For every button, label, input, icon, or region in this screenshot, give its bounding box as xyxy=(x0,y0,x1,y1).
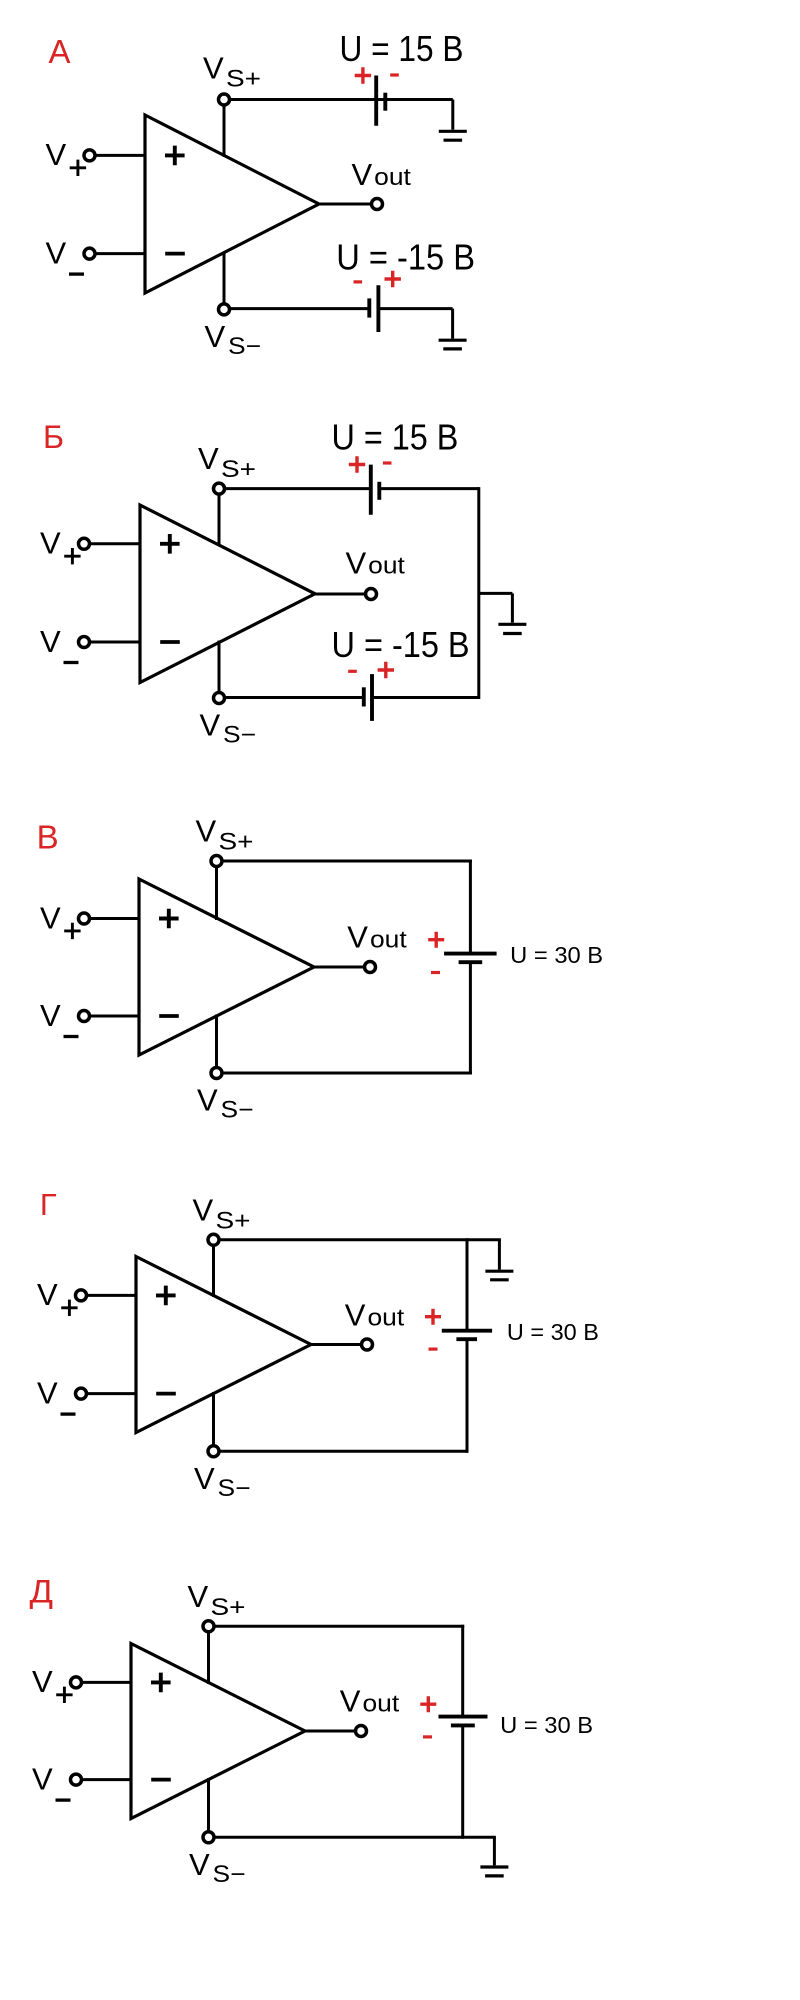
node Г: Vout terminal xyxy=(362,1339,373,1350)
svg-text:Д: Д xyxy=(30,1573,54,1609)
battery А bottom (−15 V) long plate xyxy=(376,285,380,332)
ground Б xyxy=(498,624,526,633)
label Б: battery top + polarity xyxy=(349,456,365,472)
label Г: VS− xyxy=(194,1461,251,1502)
op-amp В non-inverting input + mark xyxy=(159,909,179,929)
section В label xyxy=(37,819,59,856)
label Б: battery bottom + polarity xyxy=(378,662,394,678)
label В: battery value xyxy=(510,942,603,968)
node В: VS− terminal xyxy=(211,1068,222,1079)
svg-text:S+: S+ xyxy=(216,1207,251,1234)
battery Б bottom (−15 V) long plate xyxy=(370,674,374,721)
wire А: VS+ to battery + plate xyxy=(230,98,377,101)
node А: V+ input terminal xyxy=(84,150,95,161)
battery Б bottom (−15 V) short plate xyxy=(362,687,366,706)
node А: VS− terminal xyxy=(219,304,230,315)
label А: battery top value xyxy=(340,28,464,69)
op-amp А triangle xyxy=(145,115,319,293)
battery В (30 V) long plate xyxy=(444,952,497,956)
label Г: battery + polarity xyxy=(425,1309,441,1325)
op-amp А inverting input − mark xyxy=(165,252,185,256)
label В: V− xyxy=(40,998,79,1037)
node Г: V+ input terminal xyxy=(76,1290,87,1301)
battery Б top (+15 V) long plate xyxy=(369,465,373,515)
wire Г: VS+ pin stub xyxy=(212,1245,215,1297)
wire Д: VS− bottom rail xyxy=(214,1836,496,1839)
svg-text:S−: S− xyxy=(218,1475,251,1502)
label В: VS− xyxy=(197,1083,254,1124)
label А: V− xyxy=(46,236,85,275)
battery А top (+15 V) short plate xyxy=(383,93,387,111)
svg-text:V: V xyxy=(200,708,221,743)
wire Б: bus to ground xyxy=(479,593,513,622)
label А: battery bottom − polarity xyxy=(354,280,363,283)
svg-text:V: V xyxy=(189,1847,210,1882)
node Г: VS+ terminal xyxy=(208,1234,219,1245)
op-amp Б non-inverting input + mark xyxy=(160,534,180,554)
wire А: output xyxy=(319,203,372,206)
op-amp Г non-inverting input + mark xyxy=(156,1286,176,1306)
wire Д: VS+ top rail xyxy=(214,1625,464,1628)
wire Д: bottom rail to ground xyxy=(493,1837,496,1865)
wire В: right bus lower (battery − plate to VS−) xyxy=(469,962,472,1074)
wire В: output xyxy=(314,966,365,969)
node В: V− input terminal xyxy=(79,1011,90,1022)
svg-text:V: V xyxy=(193,1192,214,1227)
label Д: battery value xyxy=(500,1712,593,1738)
ground А top xyxy=(439,131,467,140)
label А: battery top − polarity xyxy=(390,73,399,76)
op-amp В triangle xyxy=(139,879,314,1055)
node В: VS+ terminal xyxy=(211,856,222,867)
wire А: VS− pin stub xyxy=(223,252,226,304)
label Б: battery bottom value xyxy=(332,624,470,665)
svg-text:Б: Б xyxy=(43,419,64,455)
wire Г: right bus upper (to battery + plate) xyxy=(466,1238,469,1330)
wire В: V− input to op-amp xyxy=(90,1015,140,1018)
svg-text:V: V xyxy=(194,1461,215,1496)
wire Д: V− input to op-amp xyxy=(82,1778,132,1781)
ground Г xyxy=(485,1271,513,1280)
label А: battery top + polarity xyxy=(355,67,371,83)
svg-text:V: V xyxy=(346,546,367,581)
wire Г: VS− bottom rail xyxy=(219,1450,469,1453)
wire А: V+ input to op-amp xyxy=(95,154,145,157)
wire Б: VS− to battery − plate xyxy=(225,696,364,699)
wire Г: top rail to ground xyxy=(498,1240,501,1270)
label А: battery bottom value xyxy=(336,236,475,277)
wire Д: VS+ pin stub xyxy=(207,1632,210,1684)
label Д: V− xyxy=(32,1762,71,1801)
label Д: V+ xyxy=(32,1664,73,1703)
svg-text:S+: S+ xyxy=(221,456,256,483)
label Д: VS+ xyxy=(188,1579,246,1621)
svg-text:В: В xyxy=(37,819,59,856)
battery А top (+15 V) long plate xyxy=(374,76,378,126)
wire А: V− input to op-amp xyxy=(95,252,145,255)
node Б: VS− terminal xyxy=(214,693,225,704)
label Г: Vout xyxy=(345,1298,405,1333)
svg-text:V: V xyxy=(347,920,368,955)
svg-text:V: V xyxy=(32,1664,53,1699)
svg-text:V: V xyxy=(203,51,224,86)
wire В: VS+ top rail xyxy=(222,860,472,863)
svg-text:U = -15 В: U = -15 В xyxy=(336,236,475,277)
svg-text:S+: S+ xyxy=(226,66,261,93)
battery Д (30 V) short plate xyxy=(451,1723,475,1727)
svg-text:S−: S− xyxy=(228,333,261,360)
label А: VS+ xyxy=(203,51,261,93)
op-amp Д triangle xyxy=(131,1644,305,1819)
label Б: battery bottom − polarity xyxy=(348,670,357,673)
label Д: VS− xyxy=(189,1847,246,1888)
wire Б: battery bottom + plate to right bus xyxy=(372,696,479,699)
wire В: right bus upper (to battery + plate) xyxy=(469,860,472,954)
op-amp В inverting input − mark xyxy=(159,1014,179,1018)
svg-text:U = -15 В: U = -15 В xyxy=(332,624,470,665)
svg-text:S−: S− xyxy=(213,1861,246,1888)
svg-text:V: V xyxy=(37,1277,58,1312)
wire Б: VS+ to battery + plate xyxy=(225,487,371,490)
node А: Vout terminal xyxy=(372,199,383,210)
wire Г: V+ input to op-amp xyxy=(87,1294,137,1297)
node Д: V− input terminal xyxy=(71,1774,82,1785)
label В: VS+ xyxy=(196,814,254,856)
node Г: VS− terminal xyxy=(208,1446,219,1457)
op-amp А non-inverting input + mark xyxy=(165,146,185,166)
wire В: VS− bottom rail xyxy=(222,1072,472,1075)
node Д: VS+ terminal xyxy=(203,1621,214,1632)
op-amp Д non-inverting input + mark xyxy=(151,1673,171,1693)
label Г: V+ xyxy=(37,1277,78,1316)
svg-text:out: out xyxy=(370,927,407,954)
svg-text:S+: S+ xyxy=(211,1594,246,1621)
svg-text:V: V xyxy=(46,236,67,271)
wire В: VS− pin stub xyxy=(215,1015,218,1068)
label Г: VS+ xyxy=(193,1192,251,1234)
svg-text:S−: S− xyxy=(223,722,256,749)
section Г label xyxy=(40,1187,57,1222)
label Б: battery top value xyxy=(332,417,459,458)
label Б: V− xyxy=(40,624,79,663)
wire А: VS+ pin stub xyxy=(223,105,226,157)
wire Б: output xyxy=(315,593,366,596)
svg-text:S−: S− xyxy=(221,1097,254,1124)
svg-text:Г: Г xyxy=(40,1187,57,1222)
label Д: Vout xyxy=(340,1684,400,1719)
node А: VS+ terminal xyxy=(219,94,230,105)
svg-text:U = 15 В: U = 15 В xyxy=(332,417,459,458)
battery Г (30 V) long plate xyxy=(442,1329,492,1333)
wire Б: V− input to op-amp xyxy=(90,641,141,644)
label Г: V− xyxy=(37,1376,76,1415)
wire А: VS− to battery − plate xyxy=(230,307,370,310)
wire Г: VS+ top rail xyxy=(219,1238,501,1241)
label Б: VS− xyxy=(200,708,257,749)
svg-text:А: А xyxy=(49,33,71,70)
wire Г: VS− pin stub xyxy=(212,1392,215,1446)
battery В (30 V) short plate xyxy=(459,960,483,964)
battery А bottom (−15 V) short plate xyxy=(367,298,371,317)
battery Б top (+15 V) short plate xyxy=(377,482,381,500)
svg-text:U = 30 В: U = 30 В xyxy=(510,942,603,968)
op-amp Б triangle xyxy=(140,505,315,683)
section Б label xyxy=(43,419,64,455)
wire Б: battery top − plate to right bus xyxy=(379,487,479,490)
label А: Vout xyxy=(352,157,412,192)
section Д label xyxy=(30,1573,54,1609)
label Д: battery + polarity xyxy=(420,1696,436,1712)
svg-text:V: V xyxy=(40,624,61,659)
node В: V+ input terminal xyxy=(79,913,90,924)
op-amp Д inverting input − mark xyxy=(151,1778,171,1782)
label А: V+ xyxy=(46,137,87,176)
svg-text:out: out xyxy=(368,553,405,580)
op-amp Г inverting input − mark xyxy=(156,1392,176,1396)
svg-text:V: V xyxy=(345,1298,366,1333)
svg-text:V: V xyxy=(40,526,61,561)
wire Д: output xyxy=(305,1730,356,1733)
label Б: Vout xyxy=(346,546,406,581)
label В: V+ xyxy=(40,900,81,939)
svg-text:U = 30 В: U = 30 В xyxy=(507,1319,599,1345)
label Г: battery − polarity xyxy=(429,1347,438,1350)
wire Б: VS+ pin stub xyxy=(218,494,221,545)
label Г: battery value xyxy=(507,1319,599,1345)
svg-text:out: out xyxy=(363,1691,400,1718)
label Д: battery − polarity xyxy=(423,1735,432,1738)
node Д: VS− terminal xyxy=(203,1832,214,1843)
svg-text:V: V xyxy=(40,998,61,1033)
node Д: V+ input terminal xyxy=(71,1677,82,1688)
wire В: VS+ pin stub xyxy=(215,867,218,921)
label В: battery − polarity xyxy=(431,971,440,974)
node Б: V− input terminal xyxy=(79,637,90,648)
op-amp Б inverting input − mark xyxy=(160,640,180,644)
wire Д: V+ input to op-amp xyxy=(82,1681,132,1684)
wire А: battery bot to ground xyxy=(378,309,452,339)
op-amp Г triangle xyxy=(136,1257,311,1433)
wire Г: output xyxy=(311,1343,362,1346)
svg-text:V: V xyxy=(196,814,217,849)
label Б: V+ xyxy=(40,526,81,565)
section А label xyxy=(49,33,71,70)
label Б: VS+ xyxy=(198,441,256,483)
svg-text:V: V xyxy=(205,319,226,354)
wire Д: right bus upper (to battery + plate) xyxy=(461,1625,464,1717)
node Б: VS+ terminal xyxy=(214,483,225,494)
wire Д: right bus lower (battery − plate to VS−) xyxy=(461,1725,464,1838)
wire Б: V+ input to op-amp xyxy=(90,542,141,545)
node Д: Vout terminal xyxy=(356,1726,367,1737)
label А: VS− xyxy=(205,319,262,360)
svg-text:S+: S+ xyxy=(219,829,254,856)
node А: V− input terminal xyxy=(84,248,95,259)
battery Д (30 V) long plate xyxy=(439,1715,488,1719)
svg-text:V: V xyxy=(340,1684,361,1719)
svg-text:V: V xyxy=(197,1083,218,1118)
node Б: V+ input terminal xyxy=(79,538,90,549)
svg-text:V: V xyxy=(37,1376,58,1411)
wire В: V+ input to op-amp xyxy=(90,917,140,920)
ground А bot xyxy=(439,340,467,349)
label Б: battery top − polarity xyxy=(383,461,392,464)
wire А: battery top to ground xyxy=(376,100,453,130)
node В: Vout terminal xyxy=(365,962,376,973)
svg-text:out: out xyxy=(374,164,411,191)
wire Г: V− input to op-amp xyxy=(87,1392,137,1395)
svg-text:V: V xyxy=(46,137,67,172)
label В: battery + polarity xyxy=(428,932,444,948)
wire Б: right bus xyxy=(477,487,480,699)
svg-text:out: out xyxy=(368,1305,405,1332)
svg-text:V: V xyxy=(352,157,373,192)
node Б: Vout terminal xyxy=(366,589,377,600)
ground Д xyxy=(480,1867,508,1876)
battery Г (30 V) short plate xyxy=(456,1337,477,1341)
label В: Vout xyxy=(347,920,407,955)
wire Б: VS− pin stub xyxy=(218,641,221,693)
svg-text:V: V xyxy=(198,441,219,476)
node Г: V− input terminal xyxy=(76,1388,87,1399)
svg-text:V: V xyxy=(32,1762,53,1797)
svg-text:V: V xyxy=(40,900,61,935)
svg-text:U = 30 В: U = 30 В xyxy=(500,1712,593,1738)
svg-text:U = 15 В: U = 15 В xyxy=(340,28,464,69)
wire Г: right bus lower (battery − plate to VS−) xyxy=(466,1339,469,1453)
svg-text:V: V xyxy=(188,1579,209,1614)
label А: battery bottom + polarity xyxy=(385,271,401,287)
wire Д: VS− pin stub xyxy=(207,1778,210,1832)
